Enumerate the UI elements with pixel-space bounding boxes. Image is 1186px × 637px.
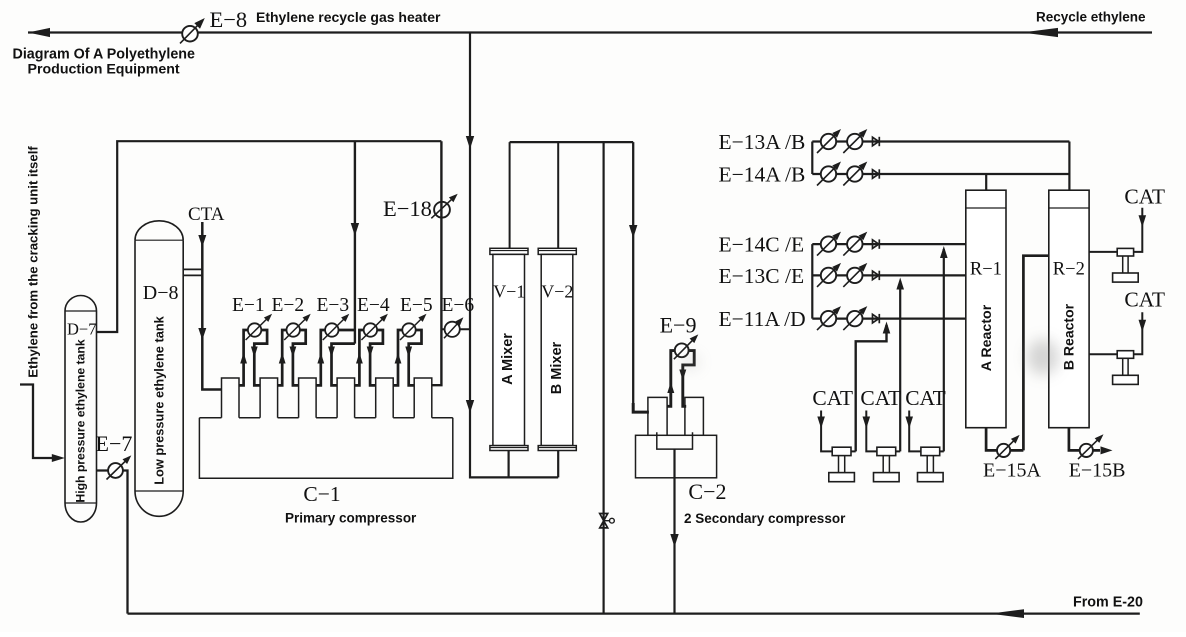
svg-text:CAT: CAT <box>1124 287 1165 311</box>
svg-text:E−4: E−4 <box>357 295 390 316</box>
svg-text:E−13A /B: E−13A /B <box>719 130 806 154</box>
svg-text:From E-20: From E-20 <box>1073 595 1143 611</box>
svg-text:E−18: E−18 <box>383 196 432 221</box>
svg-text:E−2: E−2 <box>272 295 305 316</box>
svg-text:E−7: E−7 <box>96 431 133 456</box>
svg-text:CAT: CAT <box>860 386 901 410</box>
svg-text:E−8: E−8 <box>210 7 248 32</box>
svg-text:CTA: CTA <box>188 204 225 225</box>
svg-text:C−1: C−1 <box>303 482 340 506</box>
svg-text:D−7: D−7 <box>67 320 96 339</box>
svg-text:B Reactor: B Reactor <box>1060 303 1076 370</box>
svg-text:Primary compressor: Primary compressor <box>285 511 417 526</box>
svg-text:Recycle ethylene: Recycle ethylene <box>1036 9 1146 24</box>
svg-text:C−2: C−2 <box>688 479 726 504</box>
svg-text:Ethylene recycle gas heater: Ethylene recycle gas heater <box>256 9 441 25</box>
svg-text:A Mixer: A Mixer <box>500 333 516 385</box>
svg-text:Low pressure ethylene tank: Low pressure ethylene tank <box>151 315 166 484</box>
svg-text:Diagram Of A Polyethylene: Diagram Of A Polyethylene <box>13 46 196 62</box>
svg-text:Ethylene from the cracking uni: Ethylene from the cracking unit itself <box>26 146 41 378</box>
svg-text:E−9: E−9 <box>660 312 697 337</box>
svg-text:D−8: D−8 <box>143 282 179 304</box>
svg-text:E−3: E−3 <box>317 295 350 316</box>
svg-text:R−1: R−1 <box>970 260 1002 280</box>
svg-text:V−2: V−2 <box>541 282 573 302</box>
svg-text:High pressure ethylene tank: High pressure ethylene tank <box>73 339 87 502</box>
svg-text:B Mixer: B Mixer <box>549 341 565 394</box>
svg-text:E−11A /D: E−11A /D <box>719 307 806 331</box>
svg-text:E−14C /E: E−14C /E <box>719 233 805 257</box>
svg-text:E−14A /B: E−14A /B <box>719 162 806 186</box>
svg-text:2 Secondary compressor: 2 Secondary compressor <box>684 511 846 526</box>
svg-text:E−13C /E: E−13C /E <box>719 264 805 288</box>
svg-text:E−6: E−6 <box>442 295 475 316</box>
svg-text:CAT: CAT <box>1124 185 1165 209</box>
svg-text:E−5: E−5 <box>400 295 433 316</box>
svg-text:A Reactor: A Reactor <box>979 304 995 371</box>
svg-text:E−1: E−1 <box>232 295 265 316</box>
svg-text:E−15B: E−15B <box>1069 460 1126 482</box>
svg-text:V−1: V−1 <box>493 282 525 302</box>
svg-text:R−2: R−2 <box>1053 260 1085 280</box>
svg-text:Production Equipment: Production Equipment <box>28 62 180 78</box>
svg-text:E−15A: E−15A <box>983 460 1041 482</box>
svg-text:CAT: CAT <box>905 386 946 410</box>
svg-text:CAT: CAT <box>812 386 853 410</box>
